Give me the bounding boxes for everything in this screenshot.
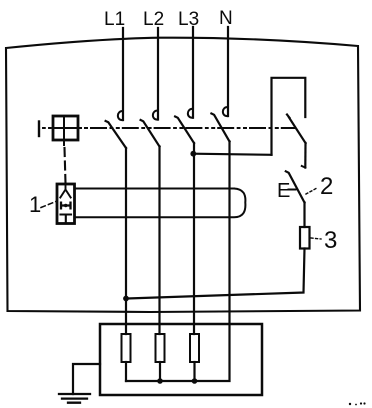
enclosure outline xyxy=(6,38,360,312)
actuator box vertical line xyxy=(63,116,65,145)
switch blade L3 xyxy=(175,117,194,144)
label E dash xyxy=(289,189,296,191)
switch blade L1 xyxy=(106,121,126,148)
svg-text:N: N xyxy=(219,8,233,29)
node B junction dot on L1 xyxy=(123,296,129,302)
svg-text:3: 3 xyxy=(324,227,337,254)
switch blade N xyxy=(211,114,229,142)
wire R2 to bus xyxy=(159,362,161,381)
contact hook N xyxy=(223,107,228,116)
linkage dash-dot line dots xyxy=(43,127,53,129)
svg-text:E: E xyxy=(277,180,290,202)
svg-text:L1: L1 xyxy=(104,9,125,30)
thermostat bar symbol xyxy=(61,203,71,209)
label 1 leader xyxy=(41,201,57,208)
thermostat T symbol xyxy=(61,215,72,223)
svg-text:2: 2 xyxy=(320,173,333,200)
switch E blade xyxy=(286,171,305,202)
wire resistor 3 to node B xyxy=(126,249,305,299)
linkage dash-dot line xyxy=(85,127,294,129)
node A junction dot on L3 xyxy=(190,151,196,157)
heating tube element xyxy=(75,189,246,218)
label 3 leader xyxy=(311,238,321,239)
switch blade right pole xyxy=(287,115,306,144)
wire L1 drop xyxy=(122,28,124,120)
heater element R2 xyxy=(156,334,165,362)
heater element R1 xyxy=(122,334,131,362)
label 2 leader xyxy=(306,188,317,194)
contact hook L2 xyxy=(153,110,158,119)
heater element R3 xyxy=(190,334,199,362)
wire R3 to bus xyxy=(193,362,195,381)
svg-text:L2: L2 xyxy=(143,9,164,30)
svg-text:L3: L3 xyxy=(178,9,199,30)
thermostat box 1 xyxy=(57,184,75,224)
thermostat arrow symbol xyxy=(60,186,70,198)
wire N drop xyxy=(227,27,229,116)
wire node A to riser xyxy=(193,154,271,155)
actuator end tick xyxy=(38,122,40,137)
dashed link to thermostat xyxy=(65,148,66,183)
junction dot R2 bus xyxy=(157,378,163,384)
resistor 3 xyxy=(300,227,310,249)
speckles xyxy=(349,402,366,405)
wire riser over to switch 2 branch xyxy=(272,78,306,155)
wire L3 lower xyxy=(193,143,195,334)
svg-text:1: 1 xyxy=(29,192,41,217)
wire L2 drop xyxy=(157,28,159,120)
contact hook L3 xyxy=(188,109,193,118)
ground symbol xyxy=(59,394,90,403)
junction dot R3 bus xyxy=(192,378,198,384)
ground wire xyxy=(73,364,100,394)
switch blade L2 xyxy=(141,120,160,147)
wire right pole to switch E xyxy=(304,143,306,168)
wire L1 lower xyxy=(125,148,127,334)
heater box xyxy=(100,324,262,395)
wire R1 to bus xyxy=(125,362,127,381)
wire L3 drop xyxy=(192,27,194,118)
actuator box horizontal line xyxy=(53,127,81,129)
switch E fixed contact tick xyxy=(302,166,306,168)
wire L2 lower xyxy=(158,147,160,335)
wire switch E to resistor 3 xyxy=(303,203,305,228)
contact hook L1 xyxy=(118,111,123,120)
actuator box xyxy=(53,116,78,140)
wire N lower xyxy=(126,142,230,382)
